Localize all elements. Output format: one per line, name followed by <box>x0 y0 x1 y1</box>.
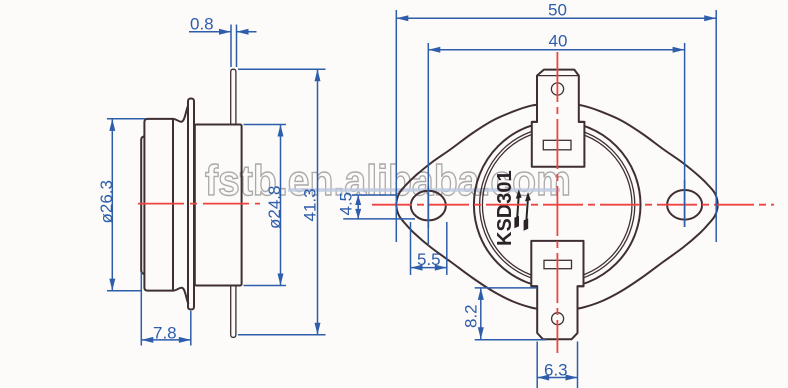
dimension 4.5 <box>337 192 416 219</box>
svg-text:5.5: 5.5 <box>417 250 441 269</box>
svg-text:KSD301: KSD301 <box>494 170 516 246</box>
pin bottom <box>231 286 236 338</box>
svg-text:8.2: 8.2 <box>462 304 481 328</box>
faint watermark underline <box>288 188 560 191</box>
dimension 8.2 <box>462 288 546 340</box>
neck curve top <box>173 106 188 122</box>
svg-text:ø24.8: ø24.8 <box>265 186 284 229</box>
bottom terminal <box>531 241 583 339</box>
dimension 40 <box>428 31 684 244</box>
dimension 5.5 <box>411 222 447 275</box>
left hole crosshair <box>427 186 429 228</box>
dimension 0.8 <box>189 15 257 68</box>
dimension dia 26.3 <box>97 119 145 291</box>
neck curve bottom <box>173 288 188 304</box>
svg-text:50: 50 <box>548 1 567 20</box>
svg-text:0.8: 0.8 <box>190 15 214 34</box>
svg-text:7.8: 7.8 <box>153 324 177 343</box>
dimension 41.3 <box>238 69 326 335</box>
svg-text:ø26.3: ø26.3 <box>97 180 116 223</box>
cap outline <box>144 119 173 291</box>
body outer circle <box>474 122 641 289</box>
dimension 6.3 <box>537 342 577 388</box>
dimension 50 <box>396 1 716 243</box>
svg-text:4.5: 4.5 <box>337 192 356 216</box>
right mounting hole <box>667 190 702 220</box>
svg-text:40: 40 <box>549 31 568 50</box>
cap rim circle inner <box>482 130 632 280</box>
cap right edge <box>172 119 174 291</box>
svg-text:6.3: 6.3 <box>544 361 568 380</box>
svg-text:fstb.en.alibaba.com: fstb.en.alibaba.com <box>205 157 571 205</box>
right hole crosshair <box>684 180 686 227</box>
left mounting hole <box>411 191 446 221</box>
svg-text:41.3: 41.3 <box>301 188 320 221</box>
centerline (side view) <box>138 203 260 205</box>
pin top <box>231 69 236 124</box>
top terminal <box>532 70 585 167</box>
cap lip <box>141 136 144 274</box>
dimension dia 24.8 <box>244 125 287 286</box>
centerline horizontal (front) <box>372 204 774 206</box>
body (side) <box>195 125 242 286</box>
dimension 7.8 <box>141 272 191 346</box>
flange outline <box>396 104 717 310</box>
bimetal arrows symbol <box>514 189 530 231</box>
flange plate (side) <box>188 99 194 310</box>
centerline vertical (front) <box>556 52 558 353</box>
cap rim circle outer <box>480 127 635 282</box>
